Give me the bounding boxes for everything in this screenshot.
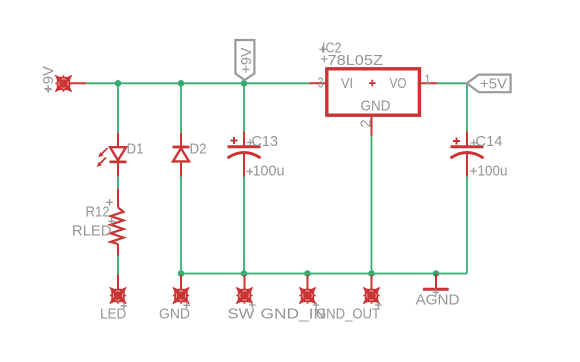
LED D1 <box>97 133 127 177</box>
label GND_IN <box>261 302 327 323</box>
value RLED <box>72 218 115 240</box>
wire C14 bottom drop <box>466 176 468 274</box>
wire D1 anode drop <box>117 83 119 133</box>
wire IC2 GND pin to bus <box>371 136 373 274</box>
junction node GND/AGND <box>433 270 440 277</box>
resistor R12 <box>111 188 124 255</box>
pad GND <box>173 287 189 303</box>
junction node +9V/D2 <box>178 80 185 87</box>
capacitor C13 <box>228 132 261 177</box>
wire +9V net top bus <box>86 82 309 84</box>
value 78L05Z <box>321 52 383 69</box>
svg-text:1: 1 <box>425 72 431 89</box>
junction node +9V/D1 <box>115 80 122 87</box>
pin 1 wire (VO) <box>420 82 437 84</box>
label C14 <box>471 133 503 150</box>
junction node GND/SW <box>241 270 248 277</box>
wire IC2 output to +5V flag <box>437 82 467 84</box>
pad GND pin <box>180 275 182 289</box>
polarity + inside IC2 <box>369 80 376 87</box>
pad GND_IN <box>299 287 315 303</box>
label GND_OUT <box>316 302 382 323</box>
pad GND_OUT <box>363 287 379 303</box>
pad LED pin <box>117 275 119 290</box>
svg-text:C14: C14 <box>476 133 503 150</box>
wire D2 cathode to bus <box>180 177 182 274</box>
pad SW <box>236 287 252 303</box>
supply flag +9V <box>235 40 255 80</box>
diode D2 <box>173 133 190 177</box>
svg-text:100u: 100u <box>253 163 285 180</box>
svg-text:R12: R12 <box>86 204 110 221</box>
label LED <box>100 303 127 323</box>
svg-text:78L05Z: 78L05Z <box>328 52 384 69</box>
svg-text:100u: 100u <box>478 163 508 180</box>
wire C13 bottom to bus <box>243 177 245 274</box>
svg-text:GND: GND <box>361 98 391 115</box>
svg-text:VI: VI <box>341 75 353 92</box>
svg-text:AGND: AGND <box>416 292 460 309</box>
junction node GND/D2 <box>178 270 185 277</box>
wire +5V column upper <box>466 83 468 131</box>
label R12 <box>86 199 113 221</box>
capacitor C14 <box>451 132 484 177</box>
svg-text:2: 2 <box>358 120 375 128</box>
junction node GND/GND_IN <box>304 270 311 277</box>
svg-text:RLED: RLED <box>72 223 112 240</box>
value 100u (C13) <box>247 163 285 180</box>
pad LED <box>110 287 126 303</box>
junction node +9V/C13 <box>241 80 248 87</box>
svg-text:D1: D1 <box>127 141 144 158</box>
pad SW pin <box>244 275 246 289</box>
wire D1 cathode to R12 <box>117 177 119 189</box>
wire R12 to LED pad <box>117 256 119 276</box>
svg-text:3: 3 <box>318 75 324 92</box>
svg-text:LED: LED <box>100 306 126 323</box>
label C13 <box>247 133 278 150</box>
op-amp IC2 regulator box <box>327 69 420 115</box>
svg-text:C13: C13 <box>252 133 279 150</box>
pad +9V (P9V) <box>40 66 86 93</box>
svg-text:SW: SW <box>228 306 256 323</box>
wire C13 top drop <box>243 80 245 132</box>
label SW <box>228 302 256 323</box>
svg-text:VO: VO <box>390 75 407 92</box>
ground AGND <box>423 274 449 296</box>
value 100u (C14) <box>470 163 507 180</box>
svg-text:+5V: +5V <box>480 76 507 93</box>
svg-text:+9V: +9V <box>238 48 255 74</box>
pad GND_OUT pin <box>371 275 373 289</box>
pad GND_IN pin <box>307 275 309 289</box>
junction node GND/GND_OUT <box>368 270 375 277</box>
label GND <box>159 302 190 323</box>
supply flag +5V <box>467 75 511 93</box>
wire D2 anode drop <box>180 83 182 133</box>
label IC2 <box>319 40 341 57</box>
svg-text:D2: D2 <box>190 141 207 158</box>
pin 2 wire (GND) <box>371 115 373 136</box>
pin 3 wire (VI) <box>309 82 326 84</box>
wire GND bottom bus <box>181 273 467 275</box>
svg-text:GND_OUT: GND_OUT <box>316 306 380 323</box>
svg-text:GND: GND <box>159 306 190 323</box>
